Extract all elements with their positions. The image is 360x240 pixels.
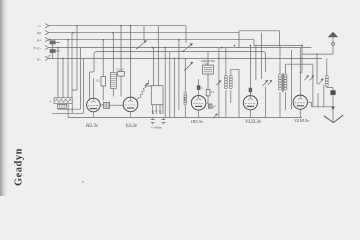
amplifier unit A1 (box with fine print)	[201, 52, 215, 90]
svg-text:H2.3v: H2.3v	[85, 124, 99, 129]
wire B1 drop to switch S2	[185, 26, 187, 43]
variable trimmer VC5 (antenna)	[318, 78, 324, 84]
bus B6 (bottom return)	[68, 117, 302, 119]
terminal T4 (P+1-)	[34, 46, 49, 51]
svg-text:A+: A+	[37, 39, 41, 43]
svg-text:S−: S−	[37, 57, 41, 61]
capacitor C9 (lightning arrester block)	[330, 90, 335, 95]
bus B1 (top supply rail)	[49, 25, 186, 27]
svg-text:V123.3v: V123.3v	[245, 120, 262, 125]
transformer T2 (IF, twin loop coils with core)	[279, 46, 313, 118]
svg-text:V218.3v: V218.3v	[294, 118, 310, 123]
capacitor C8 (at V3 right, small)	[208, 104, 216, 109]
svg-text:µF: µF	[213, 105, 216, 109]
variable trimmer VC6 VC7 (twin, right of V5)	[304, 75, 314, 80]
bus B2	[49, 32, 239, 34]
svg-text:0,1µF: 0,1µF	[117, 68, 124, 72]
wire B1 drop to switch S1	[143, 26, 145, 40]
ground (counterpoise earth)	[324, 115, 343, 123]
inductor L5 (antenna coil)	[325, 58, 333, 90]
resistor R1 (anode load V1)	[96, 40, 105, 101]
svg-text:183.3v: 183.3v	[191, 119, 204, 124]
wire V5 right network	[312, 85, 334, 107]
capacitor C11 (grid cap V4, filled)	[249, 88, 252, 92]
wire arrester to earth	[332, 95, 334, 122]
wire top-right frame	[239, 31, 302, 74]
capacitor C1 (block at terminal T4 upper)	[48, 37, 55, 44]
wire V2 leads	[130, 26, 132, 118]
node dots on buses	[57, 25, 318, 59]
wire mid feeders	[165, 40, 179, 118]
svg-text:−+: −+	[37, 25, 41, 29]
tube V2	[123, 97, 138, 112]
svg-text:± i-Hahn: ± i-Hahn	[151, 126, 162, 130]
terminal T2 (9V)	[37, 31, 49, 36]
wire left stack feeders	[58, 26, 77, 98]
wire C1/C2 stubs	[53, 40, 60, 59]
capacitor C2 (block at terminal T4 lower)	[48, 49, 55, 57]
svg-text:P+1−: P+1−	[34, 47, 42, 51]
wire C4 to V2 grid	[110, 104, 124, 106]
transformer T1 (AF interstage, open can)	[146, 26, 163, 114]
capacitor C4 (coupling V1-V2 hatched)	[103, 102, 109, 108]
capacitor C3 (hatched block under P1)	[58, 104, 67, 108]
bus B4	[49, 47, 312, 49]
inductor L2 (grid coil V3)	[183, 58, 187, 117]
bus B3 (A+ rail)	[49, 39, 254, 41]
potentiometer P1 (left stack zigzag box)	[50, 98, 73, 104]
wire V3 leads	[198, 79, 200, 118]
svg-text:0,1: 0,1	[211, 90, 215, 94]
wire screened-loop (long rounded wire)	[94, 52, 266, 72]
capacitor C6 (below bottom bus, left)	[151, 118, 155, 125]
svg-text:b3.3v: b3.3v	[126, 124, 138, 129]
brand text Geadyn	[14, 148, 25, 186]
switch S1 (wave band)	[136, 40, 147, 49]
wire stack to bottom bus	[52, 104, 84, 118]
transformer T3 (IF, twin loop coils)	[224, 48, 239, 118]
arrow (current direction)	[331, 107, 334, 111]
terminal T5 (S-)	[37, 56, 49, 61]
wire V4 leads	[249, 46, 251, 118]
terminal T3 (A+)	[37, 38, 49, 43]
capacitor C10 (grid cap V3, filled)	[197, 85, 201, 90]
tube V4	[243, 96, 257, 110]
svg-text:kO: kO	[153, 111, 155, 114]
terminal T1 (top battery terminal)	[37, 24, 50, 29]
tube V1	[87, 98, 101, 112]
inductor L1 (HF choke ladder)	[110, 33, 116, 97]
capacitor C7 (below bottom bus, right)	[162, 118, 166, 125]
variable trimmer VC3 VC4 (twin, left of T2)	[256, 33, 273, 118]
variable trimmer VC2 (below V3 right)	[213, 113, 218, 118]
wire V5 leads	[300, 48, 311, 118]
node V5 grid junction	[300, 72, 302, 74]
svg-text:Geadyn: Geadyn	[14, 148, 25, 186]
svg-text:9V: 9V	[37, 32, 42, 36]
tube V3	[191, 96, 206, 111]
svg-text:100: 100	[183, 97, 187, 102]
wire V1 leads	[81, 48, 104, 118]
bus B5 (S- rail)	[49, 57, 322, 59]
switch S2 (wave band)	[183, 43, 193, 52]
stray printing dot	[82, 181, 83, 182]
variable trimmer VC1 (near V3 top)	[184, 62, 193, 71]
resistor R3 (grid stopper V3)	[206, 90, 215, 104]
antenna A	[302, 32, 338, 84]
svg-text:µF: µF	[48, 54, 51, 58]
resistor R2 (vertical zigzag, V2 anode load)	[137, 80, 149, 100]
wire tuned feeder with trimmer	[216, 48, 221, 118]
svg-text:kO: kO	[161, 111, 163, 114]
svg-text:0,1: 0,1	[96, 79, 100, 83]
tube V5	[293, 95, 307, 109]
capacitor C5 (grid cap with label)	[117, 26, 125, 97]
